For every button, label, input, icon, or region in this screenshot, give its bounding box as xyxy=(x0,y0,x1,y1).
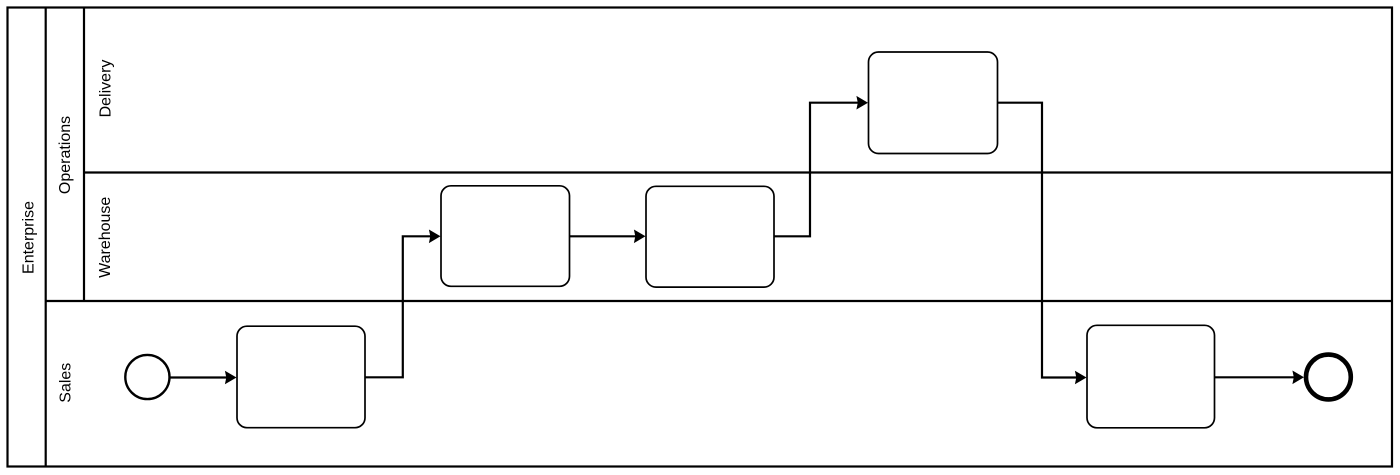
lane Operations title divider xyxy=(83,8,85,302)
task T1 (Sales) xyxy=(237,326,365,428)
task T5 (Sales) xyxy=(1087,325,1215,428)
lane Delivery / Warehouse divider xyxy=(84,171,1392,173)
sequence flow: T4 to T5 xyxy=(998,103,1087,385)
sequence flow: T2 to T3 xyxy=(570,230,646,244)
sequence flow: start to T1 xyxy=(170,371,236,385)
svg-text:Enterprise: Enterprise xyxy=(21,201,38,274)
lane Operations / Sales divider xyxy=(46,300,1392,302)
end event xyxy=(1306,355,1351,400)
sequence flow: T3 to T4 xyxy=(774,96,868,236)
svg-text:Delivery: Delivery xyxy=(98,60,115,118)
svg-text:Operations: Operations xyxy=(57,116,74,194)
lane Operations label xyxy=(57,116,74,194)
svg-text:Sales: Sales xyxy=(58,363,75,403)
svg-text:Warehouse: Warehouse xyxy=(97,197,114,278)
task T2 (Warehouse) xyxy=(441,186,570,286)
pool Enterprise title divider xyxy=(45,8,47,467)
task T3 (Warehouse) xyxy=(646,186,774,287)
pool Enterprise label xyxy=(21,201,38,274)
sequence flow: T1 to T2 xyxy=(365,230,441,378)
task T4 (Delivery) xyxy=(869,52,998,154)
start event xyxy=(125,355,169,399)
lane Sales label xyxy=(58,363,75,403)
sequence flow: T5 to end xyxy=(1215,371,1305,385)
lane Warehouse label xyxy=(97,197,114,278)
lane Delivery label xyxy=(98,60,115,118)
